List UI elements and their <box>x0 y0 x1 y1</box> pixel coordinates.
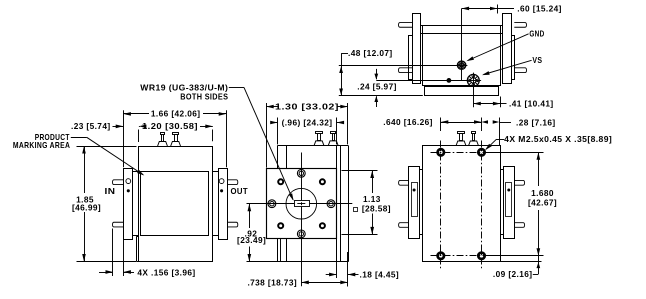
svg-text:[42.67]: [42.67] <box>528 197 557 207</box>
svg-text:.09 [2.16]: .09 [2.16] <box>493 269 533 279</box>
svg-text:4X .156 [3.96]: 4X .156 [3.96] <box>137 267 195 277</box>
svg-text:GND: GND <box>529 28 544 38</box>
svg-text:.23 [5.74]: .23 [5.74] <box>71 121 111 131</box>
svg-text:.28 [7.16]: .28 [7.16] <box>516 118 556 128</box>
svg-text:.738 [18.73]: .738 [18.73] <box>247 277 297 287</box>
svg-text:.41 [10.41]: .41 [10.41] <box>509 99 554 109</box>
svg-text:1.30 [33.02]: 1.30 [33.02] <box>275 102 339 112</box>
svg-text:OUT: OUT <box>231 186 249 196</box>
svg-text:[46.99]: [46.99] <box>72 203 101 213</box>
svg-text:(.96) [24.32]: (.96) [24.32] <box>282 118 333 128</box>
svg-text:VS: VS <box>532 55 542 65</box>
svg-text:IN: IN <box>105 186 116 196</box>
svg-text:[23.49]: [23.49] <box>237 235 266 245</box>
svg-text:.60 [15.24]: .60 [15.24] <box>517 4 562 14</box>
svg-text:MARKING AREA: MARKING AREA <box>13 140 70 150</box>
svg-text:1.66 [42.06]: 1.66 [42.06] <box>151 109 201 119</box>
svg-text:BOTH SIDES: BOTH SIDES <box>180 91 228 101</box>
svg-text:.640 [16.26]: .640 [16.26] <box>383 117 433 127</box>
svg-text:4X M2.5x0.45 X .35[8.89]: 4X M2.5x0.45 X .35[8.89] <box>504 134 612 144</box>
svg-text:.18 [4.45]: .18 [4.45] <box>360 270 400 280</box>
svg-text:1.20 [30.58]: 1.20 [30.58] <box>142 121 198 131</box>
svg-text:.48 [12.07]: .48 [12.07] <box>348 48 393 58</box>
svg-text:[28.58]: [28.58] <box>362 204 391 214</box>
svg-text:.24 [5.97]: .24 [5.97] <box>357 81 397 91</box>
